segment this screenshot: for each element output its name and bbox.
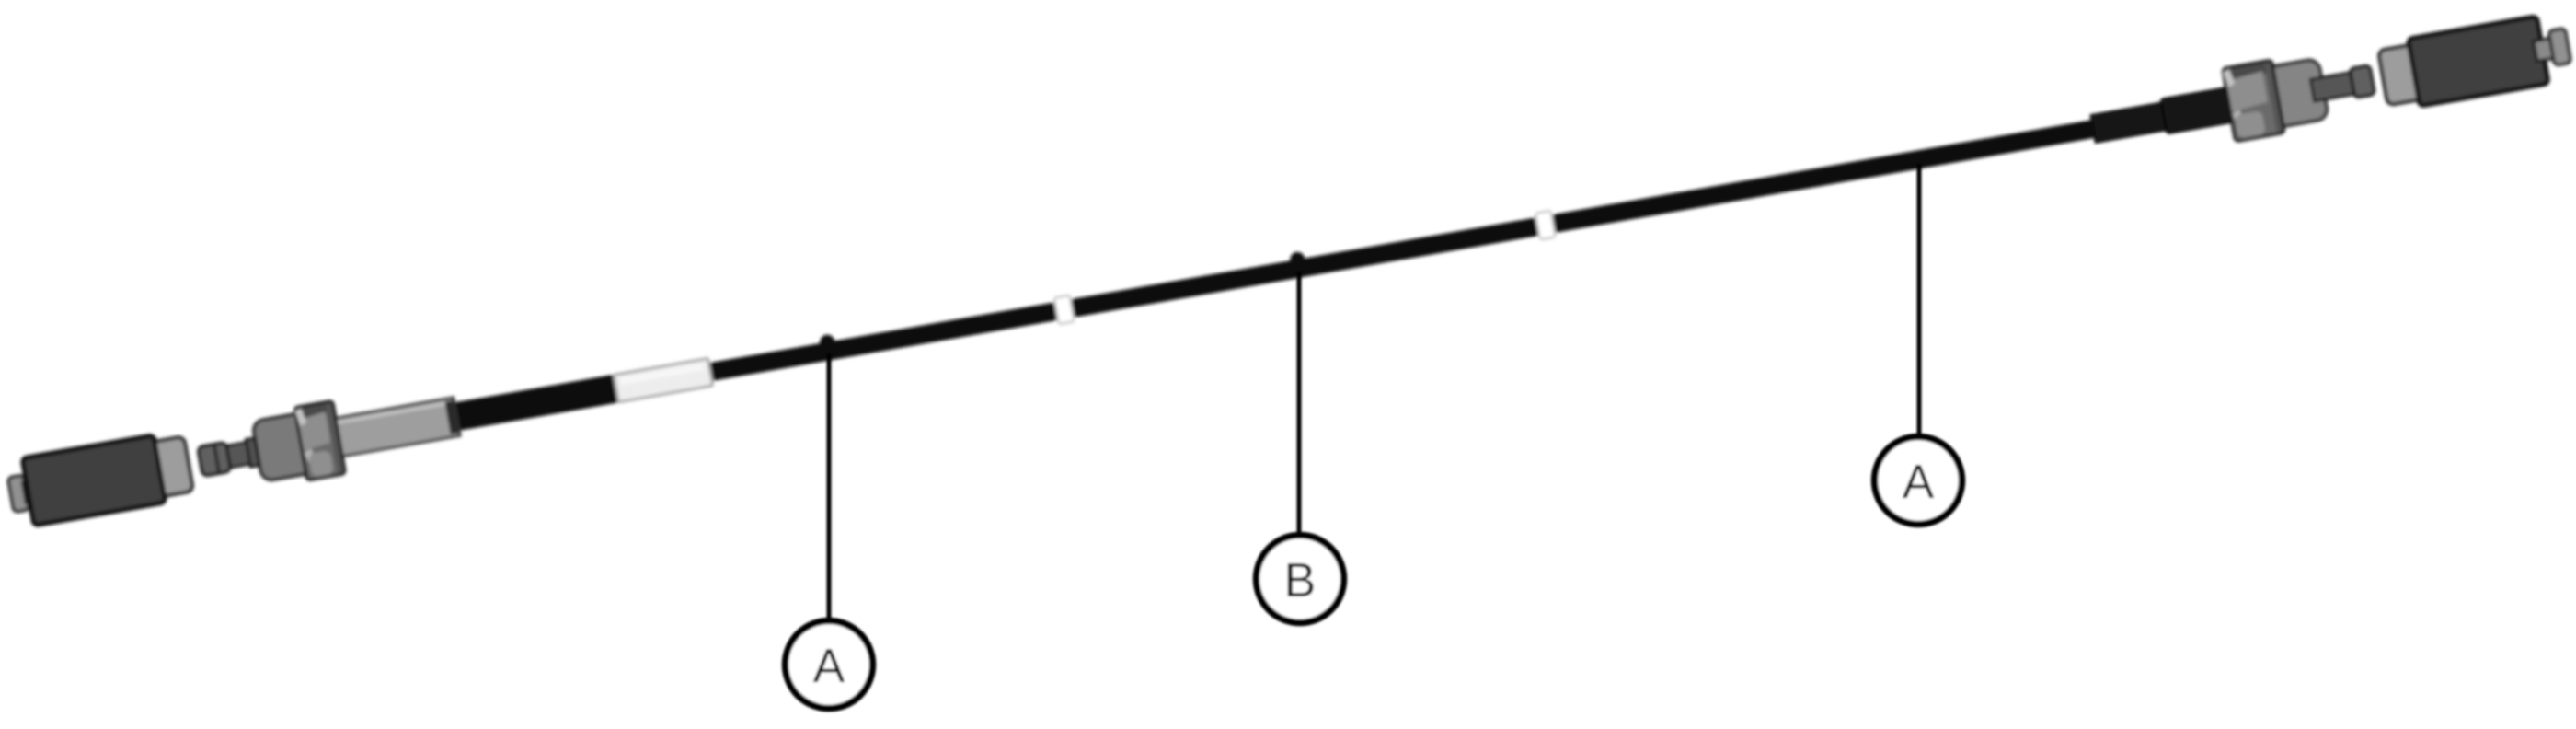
wire: thin cable jacket <box>660 105 2178 389</box>
right dust cap nub flange <box>2548 29 2570 66</box>
node A marker dot left <box>819 333 836 351</box>
left dust cap nub flange <box>8 475 29 512</box>
right dust cap nub stem <box>2534 38 2557 61</box>
left dust cap light end piece <box>145 436 193 497</box>
right connector ferrule collar <box>2350 65 2375 98</box>
left connector ferrule collar <box>198 442 231 476</box>
leader line to callout A left <box>827 353 832 622</box>
white band 1 <box>1054 295 1075 325</box>
svg-text:A: A <box>813 640 845 693</box>
leader line to callout B <box>1297 272 1302 537</box>
svg-text:B: B <box>1284 554 1317 607</box>
right connector barrel <box>2265 59 2329 128</box>
callout circle A left <box>786 621 873 709</box>
white band 2 <box>1535 211 1556 240</box>
left connector barrel <box>252 413 312 481</box>
left connector sleeve (strain relief) <box>321 398 460 459</box>
cable assembly group, tilted -10deg <box>5 9 2574 531</box>
left connector ferrule ring <box>246 436 267 467</box>
svg-text:A: A <box>1903 456 1935 509</box>
right connector ferrule stem <box>2310 72 2359 101</box>
right boot tier 1 <box>2091 100 2179 142</box>
callout circle B <box>1257 536 1344 623</box>
wire: thick cable jacket left section <box>443 360 702 433</box>
left dust cap nub stem <box>23 480 45 503</box>
cable label <box>614 358 713 402</box>
right dust cap body <box>2408 17 2548 106</box>
node B marker dot <box>1289 251 1306 269</box>
right boot tier 2 <box>2161 85 2250 133</box>
left dust cap body <box>22 435 166 526</box>
leader line to callout A right <box>1917 164 1922 438</box>
callout circle A right <box>1875 437 1962 525</box>
left connector hex nut <box>294 401 345 480</box>
right connector hex nut <box>2223 60 2284 141</box>
right dust cap light end piece <box>2378 43 2428 105</box>
left connector ferrule stem <box>221 439 266 469</box>
